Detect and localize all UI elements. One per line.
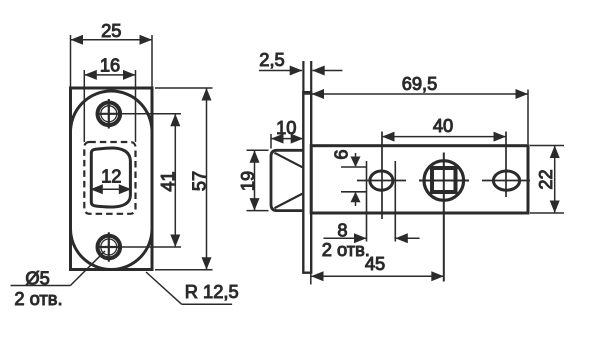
svg-text:69,5: 69,5	[402, 73, 438, 94]
svg-text:40: 40	[433, 115, 453, 136]
svg-text:41: 41	[157, 171, 178, 191]
svg-text:2 отв.: 2 отв.	[14, 288, 62, 309]
svg-text:25: 25	[101, 20, 121, 41]
svg-text:6: 6	[330, 150, 351, 160]
svg-text:16: 16	[100, 54, 120, 75]
svg-text:R 12,5: R 12,5	[185, 281, 239, 302]
svg-text:12: 12	[101, 165, 121, 186]
svg-text:8: 8	[337, 220, 347, 241]
svg-text:57: 57	[188, 171, 209, 191]
svg-text:19: 19	[237, 171, 258, 191]
svg-text:2,5: 2,5	[259, 49, 284, 70]
svg-text:45: 45	[365, 253, 385, 274]
svg-text:22: 22	[535, 169, 556, 189]
svg-text:10: 10	[276, 117, 296, 138]
svg-text:2 отв.: 2 отв.	[322, 239, 370, 260]
